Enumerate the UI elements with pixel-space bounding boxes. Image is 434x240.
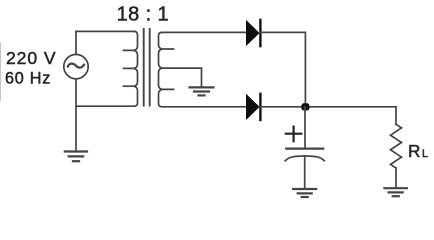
capacitor C1 top plate (286, 148, 323, 150)
capacitor C1 curved plate (285, 156, 324, 161)
transformer T1 primary winding (134, 31, 138, 106)
svg-text:R: R (408, 141, 420, 161)
wire: node down to capacitor (304, 107, 306, 148)
svg-text:18 : 1: 18 : 1 (117, 3, 169, 25)
AC source V1 circle (64, 54, 88, 78)
wire: right corner down to resistor (395, 107, 397, 125)
wire: top rail from source to primary (76, 30, 134, 32)
svg-text:220 V: 220 V (6, 48, 56, 68)
secondary winding tick stubs (162, 49, 174, 89)
ground (capacitor) (293, 189, 316, 197)
wire: primary bottom to left vertical (76, 105, 134, 107)
diode D1 (246, 20, 260, 46)
diode D2 cathode bar (259, 94, 261, 120)
wire: resistor to ground (395, 168, 397, 188)
wire: D1 to right corner, down to node (260, 32, 305, 106)
wire: secondary bottom to diode D2 (162, 106, 246, 108)
ground (center tap) (190, 87, 214, 95)
node junction dot (301, 103, 309, 110)
capacitor C1 plus sign (286, 127, 302, 142)
resistor RL zigzag (391, 124, 402, 168)
wire: source top lead (75, 31, 77, 54)
AC source sine symbol (68, 64, 84, 68)
diode D2 (246, 94, 260, 120)
ground (left, source) (65, 152, 87, 162)
wire: capacitor to ground (304, 156, 306, 188)
transformer T1 secondary winding (159, 32, 163, 106)
svg-text:60 Hz: 60 Hz (5, 70, 51, 88)
primary winding tick stubs (124, 50, 135, 86)
ground (resistor) (384, 188, 407, 196)
wire: secondary top to diode D1 (162, 31, 246, 33)
faint left-edge artifact line (0, 43, 2, 100)
diode D1 cathode bar (259, 20, 261, 46)
wire: source bottom lead down to ground (75, 79, 77, 151)
wire: D2 through node to resistor corner (260, 106, 396, 108)
svg-text:L: L (422, 148, 428, 160)
transformer core lines (143, 29, 145, 106)
wire: center tap to ground (162, 68, 202, 87)
